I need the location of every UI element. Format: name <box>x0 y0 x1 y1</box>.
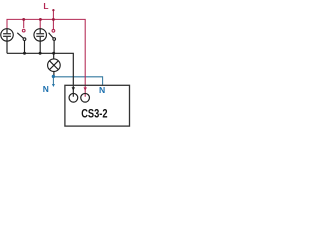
svg-text:N: N <box>43 84 49 94</box>
svg-text:CS3-2: CS3-2 <box>81 108 107 121</box>
svg-text:N: N <box>99 85 105 95</box>
svg-text:L: L <box>43 1 48 11</box>
